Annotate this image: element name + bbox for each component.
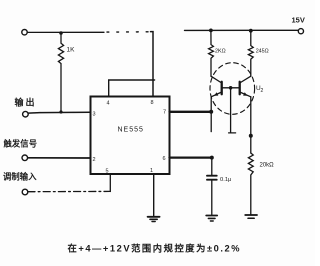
wire pin 4 riser bbox=[109, 80, 155, 97]
ground capacitor bbox=[206, 215, 217, 217]
svg-text:1: 1 bbox=[150, 168, 153, 174]
svg-text:输出: 输出 bbox=[15, 97, 37, 108]
svg-text:在+4—+12V范围内规控度为±0.2%: 在+4—+12V范围内规控度为±0.2% bbox=[68, 243, 242, 254]
ground R4 bbox=[245, 214, 257, 216]
transistor Q1 base bar bbox=[221, 82, 223, 94]
node junction pin6 / cap bbox=[210, 156, 214, 160]
svg-text:15V: 15V bbox=[292, 16, 305, 25]
terminal circle modulation input bbox=[22, 189, 28, 195]
wire pin 5 stub bbox=[109, 174, 111, 192]
node junction rail/R3 bbox=[249, 29, 253, 33]
wire dash-dot rail continuation bbox=[107, 31, 150, 33]
svg-text:2: 2 bbox=[93, 157, 96, 163]
svg-text:调制输入: 调制输入 bbox=[3, 172, 37, 182]
node junction emitter/R4 bbox=[249, 134, 253, 138]
resistor R2 2K bbox=[209, 30, 214, 76]
transistor Q2 emitter arrow bbox=[243, 92, 247, 96]
resistor R4 20k bbox=[248, 153, 253, 215]
svg-text:触发信号: 触发信号 bbox=[4, 139, 38, 149]
transistor Q1 emitter diagonal bbox=[211, 92, 222, 97]
transistor Q2 emitter diagonal bbox=[240, 92, 251, 97]
svg-text:5: 5 bbox=[106, 169, 109, 175]
wire cap to ground bbox=[211, 180, 213, 216]
terminal circle top-left supply bbox=[22, 30, 27, 35]
svg-text:1K: 1K bbox=[67, 47, 76, 54]
wire Q1 emitter column bbox=[210, 97, 212, 132]
wire base drop foot bbox=[229, 132, 236, 134]
wire pin 6 to timing cap bbox=[170, 156, 212, 158]
transistor Q1 emitter arrow bbox=[214, 92, 218, 96]
transistor Q2 base bar bbox=[239, 82, 241, 94]
svg-text:0.1μ: 0.1μ bbox=[220, 177, 231, 183]
transistor Q2 collector diagonal bbox=[240, 76, 251, 83]
wire pin 1 to ground bbox=[153, 174, 155, 216]
wire pin 8 riser to rail bbox=[151, 32, 154, 97]
dashed package outline U2 bbox=[210, 63, 255, 115]
node junction of R1 on top rail bbox=[59, 31, 63, 35]
resistor R3 245 bbox=[248, 31, 253, 76]
op-amp timer IC U1 NE555 box bbox=[91, 97, 170, 175]
wire base drop bbox=[230, 88, 232, 133]
capacitor C1 plates bbox=[207, 175, 217, 177]
wire trigger to pin 2 bbox=[28, 157, 91, 159]
svg-text:6: 6 bbox=[163, 156, 166, 162]
resistor R1 1K bbox=[58, 33, 63, 112]
node junction bases bbox=[229, 86, 233, 90]
wire dash-dot modulation input to pin 5 bbox=[28, 190, 110, 192]
svg-text:2: 2 bbox=[261, 88, 264, 94]
terminal circle trigger bbox=[22, 155, 28, 161]
capacitor C1 0.1u lead bbox=[211, 158, 213, 176]
svg-text:3: 3 bbox=[93, 112, 96, 118]
node junction pin7 / emitter column bbox=[209, 110, 213, 114]
svg-text:2KΩ: 2KΩ bbox=[215, 49, 226, 55]
transistor Q1 collector diagonal bbox=[211, 76, 222, 83]
wire top-left rail bbox=[27, 31, 104, 33]
svg-text:245Ω: 245Ω bbox=[256, 49, 269, 55]
terminal circle output bbox=[23, 111, 29, 117]
wire Q2 emitter column bbox=[250, 97, 252, 153]
wire top-right supply rail bbox=[185, 29, 299, 31]
svg-text:20kΩ: 20kΩ bbox=[260, 163, 275, 169]
svg-text:4: 4 bbox=[107, 101, 110, 107]
wire output to pin 3 bbox=[28, 111, 90, 114]
node junction rail/R2 bbox=[209, 29, 213, 33]
svg-text:8: 8 bbox=[151, 100, 154, 106]
wire pin 7 to current source bbox=[170, 111, 212, 113]
svg-text:7: 7 bbox=[163, 110, 166, 116]
node junction R1/output wire bbox=[59, 110, 62, 113]
svg-text:NE555: NE555 bbox=[118, 127, 144, 134]
ground pin 1 bbox=[148, 216, 160, 218]
wire base link Q1-Q2 bbox=[222, 87, 240, 89]
terminal circle +15V bbox=[298, 29, 303, 34]
